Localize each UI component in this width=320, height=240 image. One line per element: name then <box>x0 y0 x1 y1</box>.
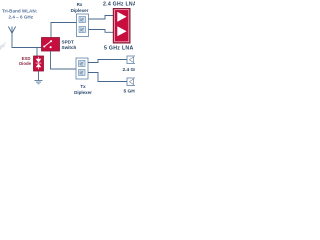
LNA block U2 box <box>113 9 130 44</box>
wire junction to ESD diode <box>36 48 38 57</box>
svg-text:Diplexer: Diplexer <box>74 90 92 95</box>
wire Rx diplexer to 2.4 GHz LNA <box>89 16 114 20</box>
ground <box>35 80 43 83</box>
wire Tx diplexer to 5 GHz Tx port <box>88 73 127 82</box>
amplifier triangle 5 GHz Tx <box>129 79 133 85</box>
svg-text:Switch: Switch <box>62 45 77 50</box>
svg-text:2.4 – 6 GHz: 2.4 – 6 GHz <box>9 14 34 19</box>
ESD diode TVS symbol <box>36 57 42 70</box>
svg-text:2.4 GHz: 2.4 GHz <box>123 67 136 73</box>
wire SPDT to Rx diplexer <box>51 23 77 38</box>
filter FL3 (2.4 GHz Tx) <box>79 61 86 67</box>
amplifier triangle 2.4 GHz Tx <box>129 57 133 63</box>
svg-text:Tx: Tx <box>80 84 86 89</box>
svg-text:Tri-Band WLAN:: Tri-Band WLAN: <box>2 8 38 13</box>
svg-text:2.4 GHz LNA: 2.4 GHz LNA <box>103 1 135 7</box>
ESD diode D1 box <box>34 56 44 71</box>
SPDT switch U1 box <box>42 38 60 52</box>
Tx amplifier 2.4 GHz box <box>127 56 137 64</box>
Rx diplexer box <box>77 14 89 37</box>
svg-text:Diplexer: Diplexer <box>71 8 89 13</box>
svg-text:5 GHz LNA: 5 GHz LNA <box>104 46 134 52</box>
Tx amplifier 5 GHz box <box>127 78 137 86</box>
SPDT switch symbol <box>43 40 52 48</box>
wire SPDT to Tx diplexer <box>51 51 77 69</box>
amplifier triangle 2.4 GHz LNA <box>117 12 126 22</box>
wire antenna to SPDT switch <box>12 33 42 47</box>
svg-text:Diode: Diode <box>19 61 32 66</box>
svg-text:Rx: Rx <box>77 2 83 7</box>
wire ESD diode to ground <box>38 71 40 80</box>
wire Rx diplexer to 5 GHz LNA <box>89 30 114 33</box>
svg-text:5 GHz: 5 GHz <box>124 89 136 95</box>
filter FL1 (2.4 GHz) <box>79 17 86 23</box>
filter FL2 (5 GHz) <box>79 27 86 33</box>
svg-text:SPDT: SPDT <box>62 40 74 45</box>
Tx diplexer box <box>76 58 88 79</box>
antenna ANT <box>8 27 15 34</box>
wire Tx diplexer to 2.4 GHz Tx port <box>88 60 127 63</box>
svg-text:ESD: ESD <box>22 56 31 61</box>
amplifier triangle 5 GHz LNA <box>117 26 126 36</box>
filter FL4 (5 GHz Tx) <box>79 70 86 76</box>
